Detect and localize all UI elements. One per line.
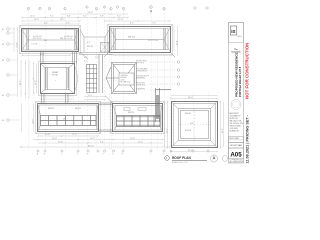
- W6 left dim chains: [22, 104, 34, 132]
- svg-text:1'-6" OH: 1'-6" OH: [31, 44, 38, 46]
- svg-text:6'-0": 6'-0": [83, 16, 87, 18]
- grid bubbles bottom: [37, 150, 209, 152]
- svg-text:4'-0": 4'-0": [84, 57, 88, 59]
- keynote leaders: [150, 62, 177, 90]
- svg-text:9'-0": 9'-0": [117, 16, 121, 18]
- svg-text:RIDGE: RIDGE: [185, 113, 191, 115]
- svg-text:24'-0": 24'-0": [188, 97, 193, 99]
- svg-text:REV / DATE: REV / DATE: [230, 137, 240, 140]
- svg-text:9'-2": 9'-2": [50, 16, 54, 18]
- dimension ticks top: [21, 17, 170, 22]
- svg-text:8'-9": 8'-9": [130, 23, 134, 25]
- section arrow at grid 10: [150, 11, 152, 14]
- svg-text:24'-0": 24'-0": [188, 150, 193, 152]
- chimney wall right-mid: [156, 88, 172, 122]
- keynote symbols: [177, 61, 180, 86]
- svg-text:6'-2": 6'-2": [87, 42, 91, 44]
- left marker labels: [2, 28, 4, 122]
- svg-text:5: 5: [86, 7, 87, 9]
- W6 hip diagonals: [38, 104, 99, 132]
- svg-text:+: +: [55, 80, 56, 82]
- wing W2 hip diagonals: [110, 27, 171, 53]
- svg-text:11: 11: [163, 8, 165, 10]
- wing W2 ridge line: [116, 39, 164, 41]
- roof square dim texts: [188, 97, 193, 152]
- svg-text:CURB MTD: CURB MTD: [136, 85, 146, 87]
- svg-text:MTL ROOF: MTL ROOF: [64, 38, 72, 40]
- svg-text:6: 6: [96, 8, 97, 10]
- svg-text:5'-6": 5'-6": [95, 57, 99, 59]
- eave outline W1: [20, 26, 81, 54]
- svg-text:2'-1": 2'-1": [84, 61, 88, 63]
- footer text: [230, 160, 245, 164]
- door arc right of W3: [75, 66, 78, 92]
- dimension ticks bottom: [20, 135, 170, 147]
- svg-text:MTL ROOF: MTL ROOF: [33, 38, 41, 40]
- svg-text:7: 7: [104, 7, 105, 9]
- svg-text:2: 2: [39, 8, 40, 10]
- svg-text:19'-6": 19'-6": [130, 138, 135, 140]
- eave outline W6: [36, 102, 101, 134]
- svg-text:5'-3": 5'-3": [66, 23, 70, 25]
- svg-text:12'-0" CLG: 12'-0" CLG: [148, 40, 158, 42]
- svg-text:12'-0": 12'-0": [72, 134, 77, 136]
- svg-text:7'-8": 7'-8": [100, 16, 104, 18]
- svg-text:ROOM: ROOM: [52, 75, 58, 77]
- room W3 text: [52, 71, 59, 82]
- svg-text:FLASHING: FLASHING: [136, 88, 146, 91]
- W7 interior band: [117, 116, 161, 127]
- svg-text:12'-4": 12'-4": [30, 16, 35, 18]
- wing W1 ridge line: [28, 39, 75, 41]
- wing W2 top-mid outer wall: [110, 27, 171, 53]
- dimension texts top: [30, 12, 156, 24]
- svg-text:23'-4": 23'-4": [17, 42, 19, 47]
- center envelope core: [119, 73, 134, 85]
- svg-text:DOWNSPOUT: DOWNSPOUT: [136, 71, 149, 73]
- center envelope W5: [106, 63, 137, 94]
- svg-text:8: 8: [110, 8, 111, 10]
- W6 interior band (deck boards): [40, 116, 96, 126]
- svg-text:6'-1": 6'-1": [44, 23, 48, 25]
- svg-text:COPYRIGHT 2021: COPYRIGHT 2021: [230, 160, 244, 162]
- wing W2 inner wall: [111, 28, 168, 50]
- dim line below W2: [113, 55, 173, 57]
- svg-text:7'-2": 7'-2": [152, 23, 156, 25]
- svg-text:ASSEMBLY: ASSEMBLY: [136, 77, 146, 80]
- wall right of W4: [99, 54, 103, 93]
- roof connector between W1 and W2: [79, 30, 113, 55]
- W3 left dim chains: [26, 60, 37, 99]
- grid labels bottom: [37, 153, 165, 156]
- svg-text:24'-0": 24'-0": [222, 128, 224, 133]
- svg-text:30'-2": 30'-2": [20, 80, 22, 85]
- key plan circle: [222, 156, 228, 162]
- room W3 inner square: [40, 64, 74, 94]
- grid lines (vertical dashed): [29, 10, 218, 150]
- hallway walls between W6 and W7: [99, 103, 113, 132]
- svg-text:TYP OF 4: TYP OF 4: [136, 63, 144, 65]
- connector walls W3 to W6: [42, 94, 69, 104]
- svg-text:3: 3: [49, 8, 50, 10]
- svg-text:SLOPE 4:12: SLOPE 4:12: [121, 82, 130, 84]
- svg-text:SLOPE 4:12: SLOPE 4:12: [33, 36, 42, 38]
- wing W1 inner wall line: [23, 30, 77, 51]
- consultant text rows: [230, 112, 244, 133]
- north arrow circle: [210, 155, 217, 162]
- architect seal: [231, 100, 241, 110]
- svg-text:15'-4": 15'-4": [88, 12, 93, 14]
- logo monogram: [230, 26, 237, 35]
- left section markers: [7, 28, 10, 122]
- svg-text:10: 10: [150, 7, 152, 9]
- svg-text:8'-6": 8'-6": [67, 16, 71, 18]
- sheet title box: [229, 143, 244, 149]
- wing W1 hip diagonals: [22, 29, 79, 52]
- left marker leaders: [9, 29, 20, 120]
- svg-text:RM 111: RM 111: [75, 108, 81, 110]
- svg-text:9'-4": 9'-4": [100, 141, 104, 143]
- svg-text:PORTOLA VALLEY LOT 8: PORTOLA VALLEY LOT 8: [239, 66, 242, 97]
- sheet number box: [229, 148, 244, 159]
- wing W2 interior texts: [128, 37, 158, 43]
- svg-text:10'-6": 10'-6": [45, 134, 50, 136]
- W3 bottom dim lines: [40, 96, 74, 99]
- wing W1 top-left outer wall: [22, 29, 79, 52]
- svg-text:4:12: 4:12: [190, 123, 194, 125]
- svg-text:SLOPE: SLOPE: [185, 130, 192, 132]
- svg-text:22'-4": 22'-4": [52, 138, 57, 140]
- svg-text:18'-2": 18'-2": [60, 19, 65, 21]
- svg-text:NOT FOR CONSTRUCTION: NOT FOR CONSTRUCTION: [244, 43, 249, 99]
- svg-text:12'-2": 12'-2": [88, 95, 93, 97]
- eave outline W2: [108, 25, 173, 55]
- eave outline W7: [111, 102, 165, 134]
- svg-text:A1: A1: [2, 28, 4, 31]
- roof square dim ticks: [167, 98, 221, 152]
- svg-text:RM 110: RM 110: [48, 108, 54, 110]
- grid bubble labels top: [28, 7, 165, 11]
- svg-text:RIDGE: RIDGE: [87, 46, 93, 48]
- connector walls W1 to W3: [41, 52, 77, 64]
- svg-text:A2: A2: [2, 43, 4, 46]
- drawing label underline: [172, 159, 207, 161]
- svg-text:SLOPE 4:12: SLOPE 4:12: [64, 36, 73, 38]
- W2 attached box left: [101, 43, 110, 53]
- svg-text:11.08.2021 | PRICING SET -: 11.08.2021 | PRICING SET -: [245, 114, 249, 163]
- svg-text:RM 112: RM 112: [128, 112, 134, 114]
- roof plan hip diagonals: [171, 102, 217, 148]
- svg-text:24'-6": 24'-6": [34, 19, 39, 21]
- svg-text:SCALE: 1/4" = 1'-0": SCALE: 1/4" = 1'-0": [172, 161, 188, 164]
- revision box: [229, 137, 244, 143]
- svg-text:RM 104: RM 104: [128, 37, 136, 39]
- title block border: [229, 23, 244, 164]
- eave outline W3: [39, 62, 77, 96]
- svg-text:11'-2": 11'-2": [138, 141, 143, 143]
- room W3 left square outer: [41, 64, 75, 94]
- svg-text:4: 4: [64, 8, 65, 10]
- wing W7 bottom-center outer: [113, 104, 163, 132]
- svg-text:ROOF PLAN: ROOF PLAN: [230, 144, 242, 147]
- wing W6 inner: [39, 105, 97, 130]
- wing W6 bottom-left outer: [38, 104, 99, 132]
- logo box: [229, 23, 244, 43]
- svg-text:SURVEYOR: SURVEYOR: [230, 131, 240, 133]
- valley W7 top-left: [105, 96, 113, 104]
- window grid W4: [86, 64, 97, 93]
- dim chain below W1: [22, 55, 70, 57]
- roof plan square second line: [174, 104, 216, 146]
- svg-text:31'-8": 31'-8": [118, 19, 123, 21]
- svg-text:A3: A3: [2, 59, 4, 62]
- svg-text:1: 1: [28, 8, 29, 10]
- svg-text:9: 9: [123, 8, 124, 10]
- svg-text:14'-2": 14'-2": [90, 138, 95, 140]
- left vertical dim texts: [17, 42, 19, 47]
- roof plan square outer: [172, 102, 218, 148]
- svg-text:A5: A5: [2, 119, 4, 122]
- roof square dims: [165, 96, 224, 152]
- dimension chains top: [22, 14, 170, 24]
- svg-text:RM: RM: [60, 38, 63, 40]
- W7 hip diagonals: [113, 104, 163, 132]
- roof valley from W1 to center: [80, 52, 88, 59]
- svg-text:15'-8": 15'-8": [58, 141, 63, 143]
- dimension chains left: [14, 27, 21, 97]
- wing W7 inner: [115, 106, 161, 131]
- roof valley from W2 right: [170, 52, 175, 57]
- svg-text:PROPOSED NEW RESIDENCE: PROPOSED NEW RESIDENCE: [234, 52, 238, 97]
- grid bubbles top: [27, 6, 208, 10]
- roof square center line: [194, 109, 196, 141]
- svg-text:24'-0": 24'-0": [167, 128, 169, 133]
- roof plan center texts: [185, 113, 194, 132]
- wing W1 interior text: [44, 38, 63, 42]
- svg-text:A4: A4: [2, 94, 4, 97]
- svg-text:J: J: [150, 154, 151, 156]
- roof valley from W2 left: [104, 52, 109, 57]
- dim line below W4: [84, 97, 106, 100]
- svg-text:IS: IS: [231, 29, 235, 34]
- svg-text:86'-10": 86'-10": [88, 145, 94, 147]
- drawing label: circle 1: [165, 156, 170, 161]
- keynote texts: [136, 61, 150, 91]
- svg-text:26'-4": 26'-4": [176, 40, 178, 45]
- dimension chains bottom: [20, 136, 170, 147]
- svg-text:28'-6": 28'-6": [33, 119, 35, 124]
- roof plan inner rect: [179, 109, 211, 141]
- svg-text:A05: A05: [230, 152, 242, 159]
- dimension texts bottom: [45, 134, 143, 147]
- svg-text:ROOF PLAN: ROOF PLAN: [172, 156, 191, 160]
- dimension chains right of top-mid wing: [174, 26, 178, 55]
- wing W1 fixtures: [31, 36, 73, 46]
